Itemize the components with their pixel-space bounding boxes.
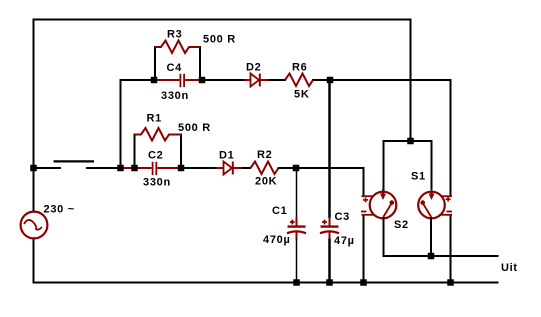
junction at C4 left xyxy=(151,77,158,84)
AC source V1 circle xyxy=(21,212,48,239)
lamp S2 needle xyxy=(383,204,391,218)
svg-text:S1: S1 xyxy=(411,171,426,183)
wire: upper row y=80 segments xyxy=(121,79,159,81)
wire: S1 bottom lead xyxy=(430,217,432,257)
wire: mains row y=168 left stub (to switch) xyxy=(33,167,62,169)
svg-text:D2: D2 xyxy=(246,62,261,74)
svg-text:S2: S2 xyxy=(394,219,409,231)
junction at S1 minus drop bottom xyxy=(447,279,454,286)
switch blade xyxy=(54,160,95,162)
wire: mains row between C2 and D1 xyxy=(181,167,217,169)
wire: right drop from upper row down (to S1 + stub), upper part xyxy=(450,79,452,196)
junction at C2 right xyxy=(178,165,185,172)
wire: left rail upper segment xyxy=(33,19,35,213)
svg-text:230 ~: 230 ~ xyxy=(44,204,75,216)
svg-text:D1: D1 xyxy=(219,149,234,161)
junction at C4 right xyxy=(199,77,206,84)
wire: mains row after switch xyxy=(86,167,127,169)
resistor R1 xyxy=(135,128,182,141)
svg-text:R2: R2 xyxy=(257,149,272,161)
junction at C2 left xyxy=(131,165,138,172)
capacitor C1 bottom lead xyxy=(296,239,298,284)
svg-text:Uit: Uit xyxy=(501,262,518,274)
capacitor C1 top lead xyxy=(296,167,298,218)
svg-text:500 R: 500 R xyxy=(203,34,236,46)
diode D1 xyxy=(216,162,244,175)
junction at C3 bottom xyxy=(326,279,333,286)
svg-text:R6: R6 xyxy=(292,62,307,74)
svg-text:5K: 5K xyxy=(294,89,309,101)
lamp S1 plus stub xyxy=(442,195,453,197)
wire: bottom rail xyxy=(33,282,499,284)
lamp S2 minus stub xyxy=(361,211,367,213)
svg-text:R3: R3 xyxy=(167,29,182,41)
junction at C1 bottom xyxy=(293,279,300,286)
lamp S1 needle xyxy=(423,204,431,218)
svg-text:330n: 330n xyxy=(143,177,171,189)
junction at S1 bottom / output line xyxy=(428,253,435,260)
junction at bus and right vertical xyxy=(407,138,414,145)
wire: R2 to S2 drop, with corner down xyxy=(278,168,364,196)
capacitor C1 xyxy=(287,217,306,240)
lamp S1 minus stub xyxy=(447,211,453,213)
wire: vertical from upper row down to mains row xyxy=(120,79,122,168)
svg-text:C4: C4 xyxy=(167,62,183,74)
wire: bus between S2 and S1 tops xyxy=(384,140,432,142)
capacitor C3 bottom lead xyxy=(328,239,331,284)
svg-text:C2: C2 xyxy=(148,150,163,162)
diode D2 xyxy=(244,74,269,87)
resistor R2 xyxy=(251,162,279,175)
AC source sine wave xyxy=(24,220,42,230)
svg-text:R1: R1 xyxy=(147,113,162,125)
junction at left rail / mains row xyxy=(30,165,37,172)
svg-text:470µ: 470µ xyxy=(263,234,291,246)
capacitor C4 xyxy=(156,74,199,87)
capacitor C3 xyxy=(320,217,339,240)
capacitor C3 top lead xyxy=(328,79,331,218)
junction at S2 minus drop bottom xyxy=(360,279,367,286)
wire: left rail lower segment xyxy=(33,239,35,284)
wire: S2 bottom lead and output upper line xyxy=(384,217,499,256)
junction at R2 output / C1 top xyxy=(293,165,300,172)
resistor R3 xyxy=(155,41,200,54)
svg-text:500 R: 500 R xyxy=(178,122,211,134)
junction at mains row / upper row drop xyxy=(117,165,124,172)
lamp S1 arrow from top xyxy=(431,189,433,195)
lamp S1 circle xyxy=(418,192,445,219)
svg-text:330n: 330n xyxy=(161,90,189,102)
wire: S2 top lead xyxy=(383,140,385,192)
svg-text:47µ: 47µ xyxy=(334,235,355,247)
lamp S2 arrow from top xyxy=(382,189,384,195)
svg-text:20K: 20K xyxy=(255,176,277,188)
resistor R6 xyxy=(285,74,313,87)
lamp S2 plus stub xyxy=(362,195,374,197)
capacitor C2 xyxy=(124,162,179,175)
svg-text:C3: C3 xyxy=(335,211,350,223)
wire: S1 top lead xyxy=(431,140,433,192)
wire: S2 left drop lower part xyxy=(363,215,365,283)
wire: right drop lower part to bottom rail xyxy=(450,215,452,283)
lamp S2 circle xyxy=(370,192,397,219)
junction at C3 top xyxy=(327,77,334,84)
resistor R1 box verticals xyxy=(134,134,136,169)
resistor R3 box verticals xyxy=(154,46,156,80)
wire: between D1 and R2 xyxy=(242,167,251,169)
wire: top rail with right corner down to node bus xyxy=(33,20,411,142)
svg-text:C1: C1 xyxy=(272,205,287,217)
